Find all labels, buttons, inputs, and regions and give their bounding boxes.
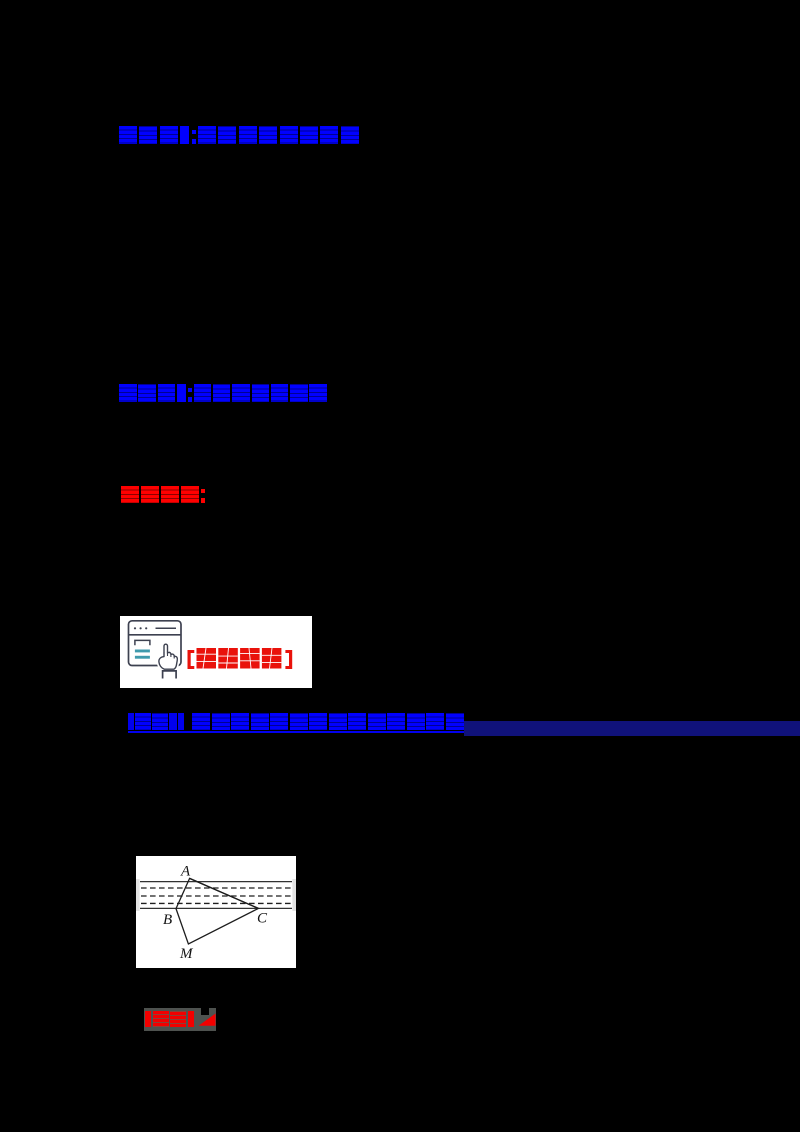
quadrilateral A-B-M-C (176, 878, 258, 944)
dashed water lines (141, 888, 291, 903)
example title blue: 利用三角形全等测距离 (192, 713, 464, 730)
figure: river with triangle ABMC (136, 856, 296, 968)
red 【典例分析】 (188, 650, 195, 669)
example line 【例题1】 blue underlined hyperlink (128, 713, 184, 730)
labels (163, 864, 268, 963)
heading H2 blue: 知识点3：全等三角形性质 (119, 384, 327, 402)
example line underline (128, 731, 464, 733)
river solid banks (140, 881, 292, 883)
heading H1 blue: 知识点2：全等三角形的判定 (119, 126, 359, 144)
banner 【典例分析】 with browser/hand icon (120, 616, 312, 688)
red triangle glyph (198, 1012, 217, 1027)
answer line 【答案】 on gray highlight (144, 1008, 201, 1032)
hand cursor (white casing + dark outline) (159, 644, 177, 679)
navy selection band to right edge (464, 721, 800, 736)
svg-text:B: B (163, 912, 172, 928)
svg-text:C: C (257, 911, 268, 927)
browser window icon (129, 620, 182, 665)
svg-text:M: M (179, 946, 194, 962)
light gray band edges (136, 879, 140, 911)
heading H3 red: 知识剖析： (121, 486, 205, 503)
svg-text:A: A (180, 864, 191, 880)
